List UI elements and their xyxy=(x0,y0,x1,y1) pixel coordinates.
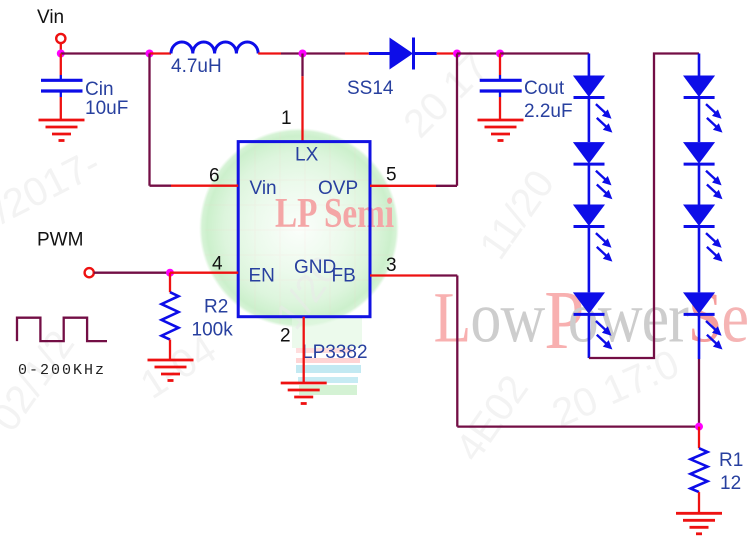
wire xyxy=(457,52,500,54)
svg-text:2: 2 xyxy=(280,325,291,346)
wire xyxy=(345,52,369,54)
watermark bulb glow xyxy=(199,128,399,348)
wire string2 bottom xyxy=(698,359,700,427)
node junction J5 xyxy=(496,50,504,58)
LED string 1 wire top xyxy=(588,54,591,76)
watermark diagonal faint text xyxy=(0,44,686,469)
wire xyxy=(500,52,589,54)
resistor R2 xyxy=(162,273,179,360)
LED D4 xyxy=(573,205,613,293)
node junction J2 xyxy=(146,50,154,58)
LED D2 xyxy=(573,76,613,143)
svg-text:FB: FB xyxy=(332,266,356,287)
svg-text:4: 4 xyxy=(212,253,223,274)
svg-text:R2: R2 xyxy=(204,297,228,318)
svg-text:6: 6 xyxy=(209,166,220,187)
wire xyxy=(281,52,345,54)
LED D8 xyxy=(683,205,723,293)
wire xyxy=(170,272,238,274)
svg-text:4.7uH: 4.7uH xyxy=(171,56,222,77)
wire xyxy=(301,54,303,77)
svg-text:12: 12 xyxy=(720,473,741,494)
svg-text:EN: EN xyxy=(249,266,275,287)
node PWM terminal xyxy=(85,268,94,277)
wire OVP pin5 net xyxy=(370,185,436,187)
LED D9 xyxy=(683,292,723,359)
ground under Cin xyxy=(39,120,85,141)
svg-text:Vin: Vin xyxy=(250,178,277,199)
ground under R2 xyxy=(148,360,194,381)
svg-text:Cout: Cout xyxy=(524,78,565,99)
IC U1 LP3382 box xyxy=(238,142,370,317)
wire string1 bottom to loop xyxy=(589,54,699,359)
wire xyxy=(150,52,172,54)
node junction J1 xyxy=(57,50,65,58)
svg-text:Cin: Cin xyxy=(85,79,114,100)
svg-text:100k: 100k xyxy=(192,320,234,341)
node Vin terminal xyxy=(56,34,65,43)
LED string 2 wire top xyxy=(698,54,701,76)
wire pin6 net xyxy=(148,54,150,186)
capacitor Cout xyxy=(480,54,522,121)
LED D6 xyxy=(683,76,723,143)
wire xyxy=(301,76,303,141)
svg-text:R1: R1 xyxy=(719,450,743,471)
svg-text:GND: GND xyxy=(294,257,336,278)
ground under R1 xyxy=(676,513,722,534)
watermark LowPowerSe xyxy=(434,273,749,366)
resistor R1 xyxy=(691,427,708,514)
wire GND pin2 net xyxy=(303,317,305,383)
wire xyxy=(60,43,62,53)
watermark bulb base stripes xyxy=(296,348,361,395)
capacitor Cin xyxy=(41,54,83,121)
ground under IC xyxy=(281,383,327,404)
LED D5 xyxy=(573,292,613,358)
svg-text:2.2uF: 2.2uF xyxy=(524,101,573,122)
wire xyxy=(258,52,281,54)
node junction J7 xyxy=(695,423,703,431)
svg-text:LP3382: LP3382 xyxy=(302,342,368,363)
LED D7 xyxy=(683,142,723,204)
inductor L1 4.7uH xyxy=(171,42,258,54)
LED D3 xyxy=(573,142,613,204)
svg-text:Vin: Vin xyxy=(37,7,64,28)
square wave symbol xyxy=(17,318,107,341)
svg-text:LX: LX xyxy=(295,145,319,166)
node junction J3 xyxy=(299,50,307,58)
svg-text:3: 3 xyxy=(386,255,397,276)
svg-text:10uF: 10uF xyxy=(85,98,128,119)
node junction J4 xyxy=(453,50,461,58)
wire xyxy=(437,52,457,54)
svg-text:LowPowerSe: LowPowerSe xyxy=(434,273,749,366)
node junction J6 xyxy=(166,269,174,277)
wire FB pin3 net xyxy=(370,274,430,276)
svg-text:5: 5 xyxy=(386,165,397,186)
ground under Cout xyxy=(478,120,524,141)
wire xyxy=(61,52,150,54)
svg-text:1: 1 xyxy=(281,108,292,129)
wire xyxy=(94,272,170,274)
diode D1 SS14 xyxy=(369,38,437,70)
svg-text:0-200KHz: 0-200KHz xyxy=(18,362,106,379)
svg-text:OVP: OVP xyxy=(318,178,358,199)
svg-text:PWM: PWM xyxy=(37,230,83,251)
svg-text:SS14: SS14 xyxy=(347,78,394,99)
